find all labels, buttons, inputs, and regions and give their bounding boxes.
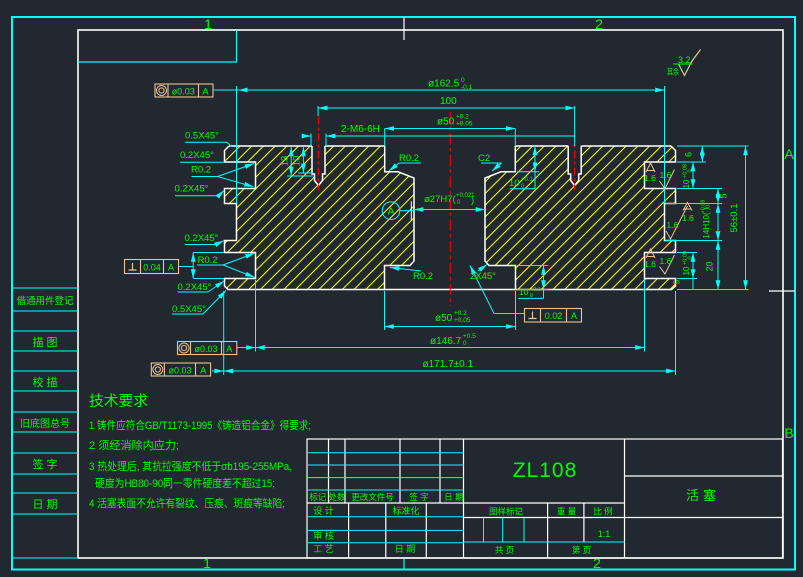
svg-text:A: A (200, 366, 206, 376)
svg-text:共 页: 共 页 (495, 545, 514, 555)
svg-text:A: A (226, 344, 232, 354)
svg-text:重 量: 重 量 (557, 507, 577, 517)
svg-text:0: 0 (688, 169, 694, 172)
svg-text:13: 13 (280, 156, 291, 167)
svg-text:ZL108: ZL108 (513, 459, 578, 482)
svg-text:ø50: ø50 (435, 313, 453, 324)
svg-text:+0.2: +0.2 (456, 114, 469, 121)
svg-text:0.2X45°: 0.2X45° (185, 233, 219, 244)
svg-text:A: A (571, 311, 577, 321)
svg-text:+0.2: +0.2 (454, 310, 467, 317)
svg-text:): ) (471, 195, 474, 206)
top-left corner block (78, 30, 237, 62)
bottom dimensions: ø50, ø146.7, ø171.7, 10 (151, 266, 675, 377)
general roughness symbol 3.2 其余 (667, 50, 701, 77)
title block (307, 439, 783, 558)
svg-text:工 艺: 工 艺 (313, 544, 334, 554)
svg-text:20: 20 (705, 261, 715, 271)
svg-text:1.6: 1.6 (667, 220, 679, 230)
svg-text:0.04: 0.04 (143, 263, 161, 273)
concentricity frame ø0.03 A (ø146.7) (178, 342, 237, 355)
svg-text:ø27H7(: ø27H7( (424, 194, 457, 205)
svg-text:借通用件登记: 借通用件登记 (16, 295, 74, 307)
part outline (225, 146, 676, 290)
svg-text:+0.05: +0.05 (454, 317, 471, 324)
svg-text:1.6: 1.6 (644, 259, 656, 269)
svg-text:处数: 处数 (328, 492, 346, 502)
svg-text:4 活塞表面不允许有裂纹、压痕、斑痕等缺陷;: 4 活塞表面不允许有裂纹、压痕、斑痕等缺陷; (89, 496, 285, 510)
svg-text:ø0.03: ø0.03 (172, 87, 195, 97)
svg-text:日 期: 日 期 (32, 498, 57, 511)
red centerlines (318, 112, 574, 306)
svg-text:0: 0 (530, 293, 533, 299)
right dimensions: 6, 10, 5, 14H10, 20, 56±0.1 (666, 146, 749, 290)
svg-text:1: 1 (203, 555, 211, 571)
surface roughness symbols 1.6 (644, 50, 701, 275)
svg-text:0.2X45°: 0.2X45° (178, 282, 212, 293)
svg-text:56±0.1: 56±0.1 (729, 204, 740, 233)
left margin record cells (12, 288, 78, 558)
svg-text:ø0.03: ø0.03 (168, 366, 191, 376)
svg-text:6: 6 (684, 152, 694, 157)
svg-text:10: 10 (682, 179, 691, 188)
svg-text:ø146.7: ø146.7 (430, 336, 462, 347)
svg-text:A: A (168, 263, 174, 273)
svg-text:100: 100 (440, 96, 457, 107)
top dimensions: ø162.5, 100, ø50, 2-M6-6H, 13, 10 (155, 77, 665, 204)
svg-text:0.5X45°: 0.5X45° (185, 131, 219, 142)
svg-text:+0.1: +0.1 (521, 177, 534, 183)
svg-text:日 期: 日 期 (444, 492, 463, 502)
svg-text:标记: 标记 (309, 492, 327, 502)
svg-text:R0.2: R0.2 (191, 165, 211, 176)
svg-text:其余: 其余 (667, 67, 679, 77)
svg-text:3 热处理后, 其抗拉强度不低于σb195-255MPa,: 3 热处理后, 其抗拉强度不低于σb195-255MPa, (89, 459, 292, 473)
svg-text:0: 0 (463, 340, 467, 347)
hatched section fill (225, 146, 676, 290)
svg-text:0.5X45°: 0.5X45° (172, 304, 206, 315)
svg-text:标准化: 标准化 (392, 505, 419, 516)
svg-text:1:1: 1:1 (598, 529, 611, 539)
svg-text:2: 2 (595, 16, 603, 32)
perpendicularity frame 0.02 A (525, 309, 582, 323)
svg-text:10: 10 (292, 156, 303, 167)
svg-text:0: 0 (688, 256, 694, 259)
svg-text:1.6: 1.6 (644, 173, 656, 183)
svg-text:设 计: 设 计 (313, 505, 334, 516)
svg-text:R0.2: R0.2 (399, 153, 419, 164)
svg-text:ø0.03: ø0.03 (194, 344, 217, 354)
svg-text:B: B (784, 425, 793, 441)
svg-text:签 字: 签 字 (409, 492, 428, 502)
svg-text:1: 1 (204, 16, 212, 32)
svg-text:1.6: 1.6 (660, 170, 672, 180)
svg-text:图样标记: 图样标记 (489, 507, 524, 517)
svg-text:1 铸件应符合GB/T1173-1995《铸造铝合金》得要求: 1 铸件应符合GB/T1173-1995《铸造铝合金》得要求; (89, 418, 311, 432)
technical requirements text (89, 393, 311, 510)
svg-text:10: 10 (509, 178, 520, 189)
svg-text:更改文件号: 更改文件号 (351, 492, 394, 502)
piston cross-section (225, 146, 676, 290)
svg-text:10: 10 (682, 266, 691, 275)
svg-text:A: A (202, 87, 208, 97)
svg-text:C2: C2 (478, 153, 490, 164)
svg-text:1.6: 1.6 (660, 256, 672, 266)
svg-text:R0.2: R0.2 (198, 255, 218, 266)
zone divider ticks (403, 17, 405, 40)
svg-text:比 例: 比 例 (593, 507, 612, 517)
svg-text:5: 5 (719, 193, 729, 198)
svg-text:活塞: 活塞 (686, 488, 720, 503)
svg-text:A: A (784, 146, 794, 162)
svg-text:旧底图总号: 旧底图总号 (20, 417, 70, 430)
svg-text:校 描: 校 描 (32, 375, 57, 389)
svg-text:技术要求: 技术要求 (89, 393, 149, 410)
svg-text:ø162.5: ø162.5 (428, 79, 460, 90)
svg-text:描 图: 描 图 (32, 335, 57, 349)
svg-text:ø50: ø50 (437, 117, 455, 128)
svg-text:A: A (388, 207, 395, 218)
bore labels: R0.2, C2, ø27H7, datum A (382, 146, 539, 282)
svg-text:10: 10 (519, 287, 529, 297)
svg-text:审 核: 审 核 (313, 530, 334, 541)
svg-text:日 期: 日 期 (395, 544, 416, 554)
svg-text:0.02: 0.02 (545, 311, 563, 321)
svg-text:2X45°: 2X45° (470, 271, 496, 282)
svg-text:第 页: 第 页 (572, 545, 591, 555)
concentricity frame ø0.03 A (ø171.7) (151, 363, 210, 376)
svg-text:+0.05: +0.05 (456, 121, 473, 128)
svg-text:签 字: 签 字 (32, 457, 57, 471)
svg-text:3.2: 3.2 (678, 55, 691, 65)
svg-text:1.6: 1.6 (682, 213, 694, 223)
svg-text:0.2X45°: 0.2X45° (175, 184, 209, 195)
svg-text:ø171.7±0.1: ø171.7±0.1 (423, 359, 474, 370)
zone labels (203, 16, 794, 571)
svg-text:0: 0 (461, 77, 465, 84)
svg-text:硬度为HB80-90同一零件硬度差不超过15;: 硬度为HB80-90同一零件硬度差不超过15; (95, 476, 275, 490)
svg-text:2 须经消除内应力;: 2 须经消除内应力; (89, 438, 179, 452)
perpendicularity frame 0.04 A (125, 260, 179, 274)
svg-text:R0.2: R0.2 (413, 271, 433, 282)
concentricity frame ø0.03 A (155, 84, 213, 97)
svg-text:0: 0 (706, 205, 712, 208)
svg-text:5: 5 (673, 279, 682, 284)
svg-text:-0.1: -0.1 (461, 84, 473, 91)
svg-text:+0.5: +0.5 (463, 333, 476, 340)
svg-text:2-M6-6H: 2-M6-6H (341, 124, 380, 135)
left chamfer and radius labels (125, 131, 255, 316)
svg-text:0.2X45°: 0.2X45° (180, 150, 214, 161)
